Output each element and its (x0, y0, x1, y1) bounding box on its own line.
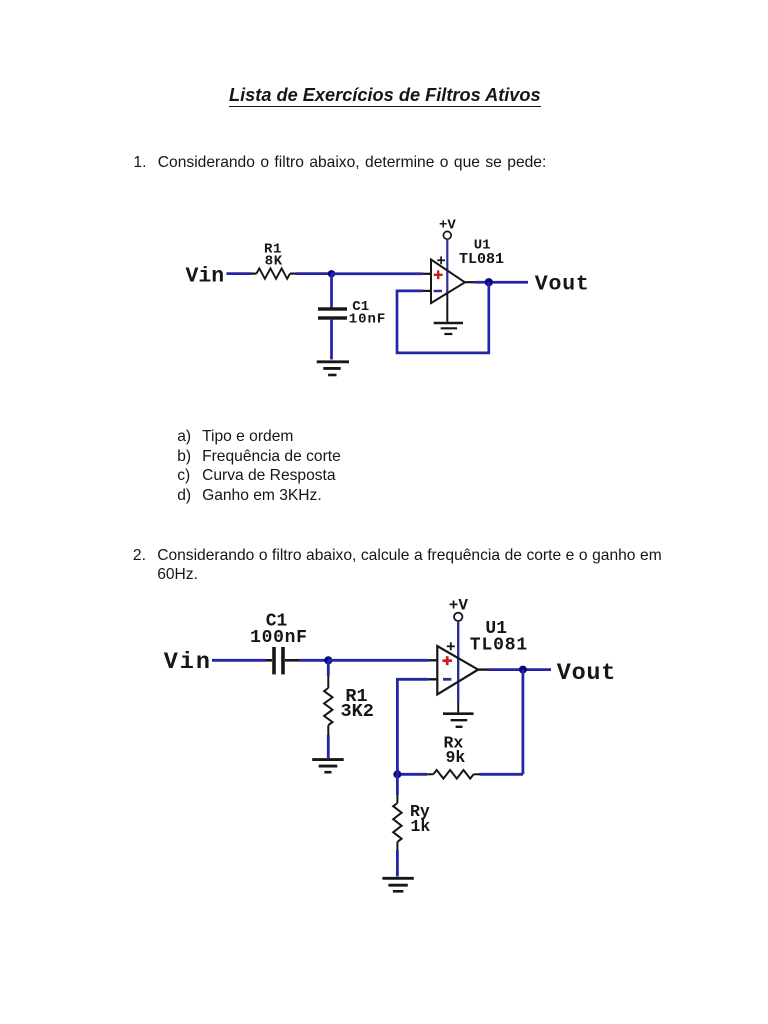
capacitor C1 (circuit 2) lead right (285, 659, 299, 662)
op-amp output pin stub (465, 281, 476, 283)
resistor R1 (circuit 1) (251, 268, 297, 278)
svg-text:TL081: TL081 (470, 636, 528, 656)
resistor R1 (circuit 2) zigzag (324, 688, 332, 725)
label C1 100nF (circuit 2) (250, 611, 308, 648)
item 2 number (133, 546, 146, 566)
svg-text:8K: 8K (265, 253, 283, 269)
wire corner to Rx right lead (480, 773, 523, 776)
wire op-amp bottom to ground (446, 294, 448, 322)
label +V (circuit 1) (439, 217, 456, 233)
label +V (circuit 2) (449, 596, 469, 614)
node output dot (circuit 2) (519, 666, 527, 674)
node output dot (circuit 1) (485, 278, 493, 286)
label U1 TL081 (circuit 1) (459, 237, 504, 268)
resistor Ry zigzag (393, 803, 401, 842)
+V terminal circle (443, 231, 451, 239)
svg-text:Vout: Vout (557, 660, 616, 687)
wire output down to Rx (circuit 2) (522, 670, 525, 775)
label Rx 9k (444, 733, 466, 767)
capacitor C1 (circuit 2) lead left (266, 659, 272, 662)
wire Ry to ground (396, 850, 399, 877)
wire feedback loop output to - input (397, 282, 489, 353)
svg-text:100nF: 100nF (250, 628, 308, 648)
resistor R1 (circuit 2) lead bottom (327, 725, 329, 735)
item 1 number (133, 155, 146, 171)
svg-text:+V: +V (449, 596, 469, 614)
label Vin (circuit 2) (164, 649, 212, 676)
op-amp + input pin stub (423, 273, 431, 275)
ground below op-amp (circuit 1) (434, 323, 463, 334)
ground below C1 (317, 362, 349, 375)
item 1 text (158, 155, 547, 171)
resistor Ry lead bottom (396, 842, 398, 850)
wire C1 to node B (299, 659, 328, 662)
wire R1 to ground (circuit 2) (327, 735, 330, 758)
wire node A down to C1 (330, 274, 333, 308)
label U1 TL081 (circuit 2) (470, 619, 528, 656)
svg-text:3K2: 3K2 (341, 701, 374, 722)
resistor Rx zigzag (427, 770, 480, 779)
wire op-amp bottom to ground (circuit 2) (457, 702, 459, 712)
op-amp non-inverting marker plus (top, circuit 2) (447, 642, 455, 650)
label Vin (circuit 1) (186, 265, 225, 289)
+V terminal circle (circuit 2) (454, 613, 462, 621)
ground below op-amp (circuit 2) (443, 714, 474, 727)
label C1 10nF (349, 299, 387, 328)
op-amp - input pin stub (circuit 2) (428, 678, 437, 680)
op-amp output pin stub (circuit 2) (478, 668, 488, 670)
resistor Ry lead top (396, 795, 398, 803)
wire node B down to R1 (327, 660, 330, 676)
wire op-amp output to Vout (circuit 2) (488, 668, 551, 671)
svg-text:Vout: Vout (535, 273, 590, 297)
node B junction dot (324, 656, 332, 664)
wire node C down to Ry (396, 774, 399, 795)
ground below R1 (circuit 2) (312, 760, 344, 773)
label R1 8K (264, 241, 283, 269)
wire Rx left lead to node C (397, 773, 427, 776)
list a-d (177, 427, 341, 505)
wire C1 to ground (330, 320, 333, 360)
wire node A to op-amp + input (332, 272, 424, 275)
title (229, 86, 541, 107)
wire Vin to R1 (227, 272, 252, 275)
wire op-amp output to Vout (476, 281, 529, 284)
wire R1 to node A (296, 272, 332, 275)
resistor R1 (circuit 2) lead top (327, 676, 329, 688)
svg-text:Vin: Vin (186, 265, 225, 289)
node A junction dot (328, 270, 335, 277)
op-amp red plus (+ input) (434, 270, 443, 279)
op-amp non-inverting marker plus (top) (437, 256, 445, 264)
svg-text:1k: 1k (411, 817, 431, 836)
op-amp U1 triangle (circuit 1) (431, 260, 465, 304)
wire node C up to - input (circuit 2) (397, 679, 428, 774)
wire +V to op-amp top (446, 239, 448, 293)
op-amp - input pin stub (423, 290, 431, 292)
item 2 text (157, 546, 662, 585)
label Vout (circuit 1) (535, 273, 590, 297)
label Vout (circuit 2) (557, 660, 616, 687)
op-amp minus (- input, circuit 2) (443, 678, 451, 681)
op-amp minus (- input) (434, 290, 442, 293)
wire node B to op-amp + input (328, 659, 428, 662)
node C junction dot (393, 770, 401, 778)
svg-text:TL081: TL081 (459, 251, 504, 268)
ground below Ry (382, 878, 413, 891)
op-amp U1 triangle (circuit 2) (437, 646, 478, 694)
op-amp red plus (+ input, circuit 2) (442, 656, 452, 665)
svg-text:10nF: 10nF (349, 312, 387, 328)
wire Vin to C1 (212, 659, 266, 662)
svg-text:Vin: Vin (164, 649, 212, 676)
label R1 3K2 (circuit 2) (341, 686, 374, 722)
capacitor C1 (circuit 2) plates (272, 647, 285, 674)
label Ry 1k (410, 802, 430, 836)
capacitor C1 (circuit 1) plates (318, 307, 347, 319)
wire +V down through op-amp (circuit 2) (457, 621, 459, 702)
op-amp + input pin stub (circuit 2) (428, 659, 437, 661)
svg-text:9k: 9k (446, 748, 466, 767)
